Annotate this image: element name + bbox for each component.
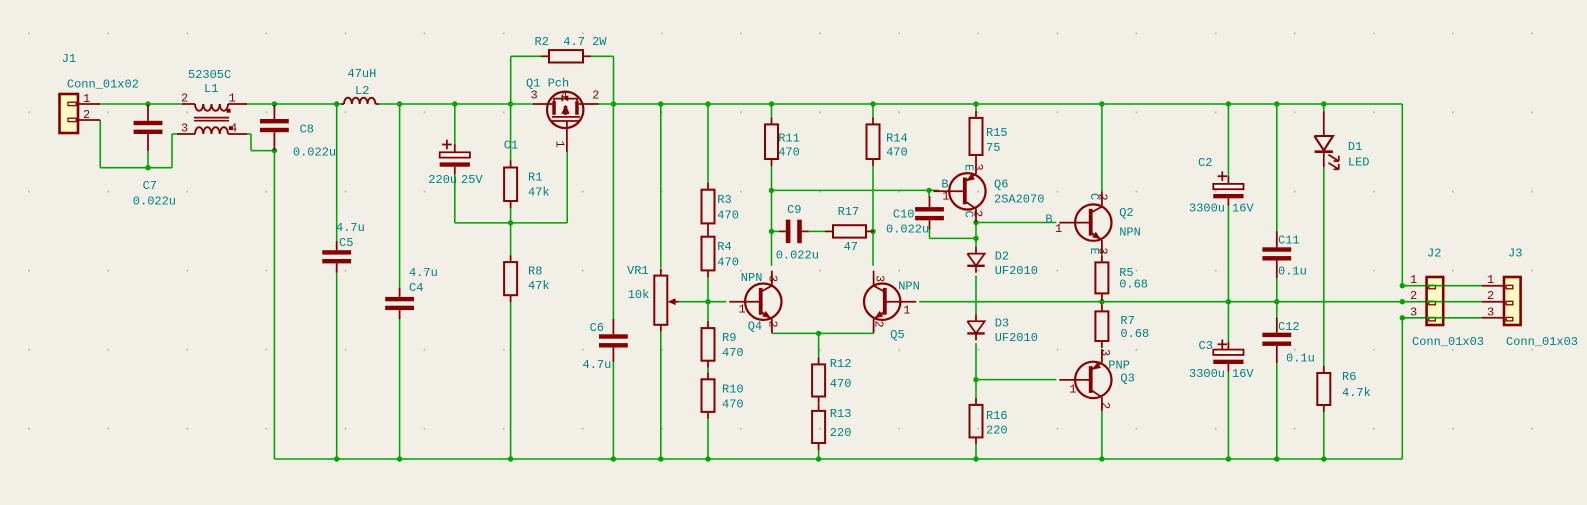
svg-text:NPN: NPN bbox=[898, 280, 920, 294]
svg-text:1: 1 bbox=[942, 190, 949, 204]
svg-text:R15: R15 bbox=[986, 126, 1008, 140]
svg-text:2: 2 bbox=[971, 210, 985, 217]
svg-text:VR1: VR1 bbox=[627, 264, 649, 278]
svg-text:B: B bbox=[1045, 213, 1052, 227]
svg-text:1: 1 bbox=[903, 304, 910, 318]
svg-text:PNP: PNP bbox=[1108, 358, 1130, 372]
svg-text:L1: L1 bbox=[204, 82, 218, 96]
svg-text:220u: 220u bbox=[428, 173, 457, 187]
svg-text:4.7u: 4.7u bbox=[583, 358, 612, 372]
svg-text:J2: J2 bbox=[1427, 247, 1441, 261]
svg-text:UF2010: UF2010 bbox=[995, 264, 1038, 278]
svg-text:Q4: Q4 bbox=[748, 319, 762, 333]
svg-text:470: 470 bbox=[722, 398, 744, 412]
svg-text:1: 1 bbox=[1487, 273, 1494, 287]
svg-text:R14: R14 bbox=[886, 132, 908, 146]
svg-text:470: 470 bbox=[717, 209, 739, 223]
svg-text:R11: R11 bbox=[778, 132, 800, 146]
svg-text:C9: C9 bbox=[787, 203, 801, 217]
svg-text:470: 470 bbox=[722, 346, 744, 360]
svg-text:Conn_01x03: Conn_01x03 bbox=[1412, 335, 1484, 349]
svg-text:L2: L2 bbox=[355, 84, 369, 98]
svg-text:0.1u: 0.1u bbox=[1278, 265, 1307, 279]
svg-text:4.7u: 4.7u bbox=[336, 221, 365, 235]
svg-text:75: 75 bbox=[986, 141, 1000, 155]
svg-text:Q5: Q5 bbox=[890, 328, 904, 342]
svg-text:0.022u: 0.022u bbox=[133, 195, 176, 209]
svg-text:R9: R9 bbox=[722, 331, 736, 345]
svg-text:D1: D1 bbox=[1348, 140, 1362, 154]
svg-text:1: 1 bbox=[83, 92, 90, 106]
svg-text:470: 470 bbox=[886, 146, 908, 160]
svg-text:3: 3 bbox=[181, 122, 188, 136]
svg-text:3: 3 bbox=[971, 164, 985, 171]
svg-text:470: 470 bbox=[717, 256, 739, 270]
svg-text:R16: R16 bbox=[986, 409, 1008, 423]
svg-text:R3: R3 bbox=[717, 193, 731, 207]
svg-text:Conn_01x02: Conn_01x02 bbox=[67, 78, 139, 92]
svg-text:4: 4 bbox=[230, 122, 237, 136]
svg-text:0.022u: 0.022u bbox=[776, 249, 819, 263]
svg-text:3: 3 bbox=[766, 275, 780, 282]
svg-text:1: 1 bbox=[1055, 222, 1062, 236]
svg-text:R10: R10 bbox=[722, 383, 744, 397]
svg-text:C8: C8 bbox=[300, 122, 314, 136]
svg-text:47uH: 47uH bbox=[348, 67, 377, 81]
svg-text:0.1u: 0.1u bbox=[1286, 352, 1315, 366]
svg-text:C7: C7 bbox=[143, 179, 157, 193]
svg-text:J3: J3 bbox=[1508, 247, 1522, 261]
svg-text:10k: 10k bbox=[628, 288, 650, 302]
svg-text:1: 1 bbox=[739, 302, 746, 316]
svg-text:3: 3 bbox=[1098, 349, 1112, 356]
svg-text:47k: 47k bbox=[528, 279, 550, 293]
svg-text:1: 1 bbox=[1410, 273, 1417, 287]
svg-text:R6: R6 bbox=[1342, 370, 1356, 384]
svg-text:2: 2 bbox=[766, 321, 780, 328]
svg-text:2: 2 bbox=[1098, 402, 1112, 409]
svg-text:C4: C4 bbox=[409, 281, 423, 295]
svg-text:0.68: 0.68 bbox=[1119, 278, 1148, 292]
svg-text:2: 2 bbox=[872, 321, 886, 328]
svg-text:C6: C6 bbox=[590, 321, 604, 335]
svg-text:Q6: Q6 bbox=[994, 178, 1008, 192]
svg-text:470: 470 bbox=[778, 146, 800, 160]
svg-text:2: 2 bbox=[1410, 289, 1417, 303]
svg-text:R4: R4 bbox=[717, 240, 731, 254]
svg-text:Q2: Q2 bbox=[1119, 206, 1133, 220]
svg-text:0.022u: 0.022u bbox=[293, 146, 336, 160]
svg-text:R13: R13 bbox=[830, 407, 852, 421]
svg-text:Q1 Pch: Q1 Pch bbox=[526, 77, 569, 91]
svg-text:220: 220 bbox=[830, 426, 852, 440]
svg-text:2: 2 bbox=[1487, 289, 1494, 303]
svg-text:1: 1 bbox=[1069, 383, 1076, 397]
svg-text:C3: C3 bbox=[1199, 339, 1213, 353]
svg-text:C11: C11 bbox=[1278, 234, 1300, 248]
svg-text:R17: R17 bbox=[838, 205, 860, 219]
svg-text:UF2010: UF2010 bbox=[995, 331, 1038, 345]
svg-text:NPN: NPN bbox=[1119, 226, 1141, 240]
svg-text:R7: R7 bbox=[1120, 314, 1134, 328]
svg-text:3: 3 bbox=[1410, 305, 1417, 319]
svg-text:3: 3 bbox=[873, 275, 887, 282]
svg-text:16V: 16V bbox=[1232, 367, 1254, 381]
svg-text:47: 47 bbox=[844, 240, 858, 254]
svg-text:3: 3 bbox=[1487, 305, 1494, 319]
svg-text:C1: C1 bbox=[504, 138, 518, 152]
svg-text:C2: C2 bbox=[1198, 156, 1212, 170]
svg-text:2: 2 bbox=[1096, 194, 1110, 201]
svg-text:1: 1 bbox=[229, 92, 236, 106]
svg-text:R2 4.7 2W: R2 4.7 2W bbox=[535, 35, 608, 49]
svg-text:52305C: 52305C bbox=[188, 68, 231, 82]
svg-text:LED: LED bbox=[1348, 155, 1370, 169]
svg-text:R1: R1 bbox=[528, 171, 542, 185]
svg-text:2: 2 bbox=[592, 89, 599, 103]
svg-text:C12: C12 bbox=[1278, 320, 1300, 334]
svg-text:4.7k: 4.7k bbox=[1342, 386, 1371, 400]
svg-text:Conn_01x03: Conn_01x03 bbox=[1506, 335, 1578, 349]
svg-text:47k: 47k bbox=[528, 186, 550, 200]
svg-text:1: 1 bbox=[553, 141, 567, 148]
svg-text:D3: D3 bbox=[995, 317, 1009, 331]
svg-text:3300u: 3300u bbox=[1189, 202, 1225, 216]
svg-text:R12: R12 bbox=[830, 357, 852, 371]
svg-text:2: 2 bbox=[83, 108, 90, 122]
svg-text:4.7u: 4.7u bbox=[409, 266, 438, 280]
svg-text:2: 2 bbox=[181, 92, 188, 106]
svg-text:25V: 25V bbox=[461, 173, 483, 187]
svg-text:220: 220 bbox=[986, 424, 1008, 438]
svg-text:3300u: 3300u bbox=[1189, 367, 1225, 381]
svg-text:16V: 16V bbox=[1232, 202, 1254, 216]
svg-text:2SA2070: 2SA2070 bbox=[994, 192, 1044, 206]
svg-text:Q3: Q3 bbox=[1120, 371, 1134, 385]
svg-text:J1: J1 bbox=[62, 52, 76, 66]
svg-text:C10: C10 bbox=[893, 208, 915, 222]
svg-text:C5: C5 bbox=[339, 236, 353, 250]
svg-text:0.68: 0.68 bbox=[1120, 327, 1149, 341]
svg-text:3: 3 bbox=[1096, 248, 1110, 255]
svg-text:4: 4 bbox=[561, 91, 568, 103]
svg-text:R8: R8 bbox=[528, 264, 542, 278]
svg-text:0.022u: 0.022u bbox=[886, 223, 929, 237]
svg-text:470: 470 bbox=[830, 377, 852, 391]
svg-text:D2: D2 bbox=[995, 250, 1009, 264]
svg-text:NPN: NPN bbox=[741, 271, 763, 285]
